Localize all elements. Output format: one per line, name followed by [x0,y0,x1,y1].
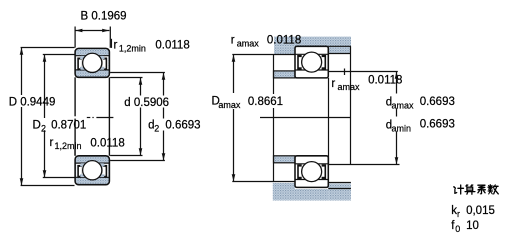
svg-text:0.8701: 0.8701 [51,119,86,131]
svg-text:0: 0 [455,224,460,234]
svg-text:amax: amax [237,39,260,49]
svg-text:0,015: 0,015 [466,205,495,217]
svg-text:r: r [114,39,118,51]
svg-text:0.0118: 0.0118 [267,35,301,47]
svg-text:amin: amin [392,123,412,133]
svg-text:0.0118: 0.0118 [155,40,189,52]
svg-text:amax: amax [392,100,415,110]
svg-text:0.6693: 0.6693 [420,96,455,108]
svg-text:r: r [331,78,335,90]
svg-text:d 0.5906: d 0.5906 [124,97,169,109]
svg-text:0.6693: 0.6693 [165,120,200,132]
svg-text:B 0.1969: B 0.1969 [81,10,127,22]
svg-text:0.6693: 0.6693 [420,119,455,131]
svg-text:r: r [457,209,460,219]
svg-text:0.0118: 0.0118 [90,137,124,149]
svg-text:0.0118: 0.0118 [368,75,402,87]
svg-text:D 0.9449: D 0.9449 [9,96,56,108]
svg-text:1,2min: 1,2min [55,141,82,151]
svg-text:D: D [33,119,41,131]
svg-text:2: 2 [41,123,46,133]
svg-text:2: 2 [154,124,159,134]
svg-text:0.8661: 0.8661 [248,96,283,108]
svg-text:r: r [231,34,235,46]
svg-text:amax: amax [338,82,361,92]
svg-text:amax: amax [218,100,241,110]
svg-text:r: r [50,137,54,149]
svg-text:1,2min: 1,2min [119,43,146,53]
svg-text:10: 10 [466,220,479,232]
